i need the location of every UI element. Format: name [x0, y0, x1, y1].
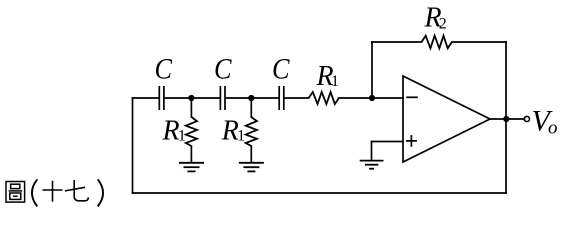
ground under R1 shunt 2: [239, 163, 264, 172]
svg-text:C: C: [155, 53, 173, 86]
svg-text:o: o: [548, 118, 558, 139]
svg-text:1: 1: [178, 128, 186, 145]
wire C1 to node A: [165, 97, 192, 99]
wire op-amp + input: [372, 141, 404, 143]
svg-text:C: C: [214, 53, 232, 86]
capacitor C2 plates: [220, 86, 225, 110]
wire C3 to R1 series: [285, 97, 309, 99]
ground under R1 shunt 1: [179, 163, 204, 172]
wire R2 top right segment: [452, 41, 506, 43]
wire node A down to R1: [190, 98, 192, 117]
caption glyph 七: [65, 180, 88, 201]
node inverting input junction dot: [369, 95, 375, 101]
caption glyph 十: [43, 181, 63, 202]
output terminal open circle: [524, 116, 529, 121]
wire right vertical (R2 top to output node to bottom): [505, 42, 507, 193]
resistor R1 series zigzag: [309, 92, 339, 104]
ground at op-amp + input: [360, 161, 384, 169]
resistor R1 shunt 2 zigzag: [246, 117, 257, 146]
op-amp minus sign: [406, 96, 418, 98]
wire R2 left vertical from inverting node: [371, 42, 373, 98]
svg-text:R: R: [162, 116, 180, 147]
capacitor C3 plates: [279, 86, 284, 110]
node A junction dot: [188, 95, 194, 101]
svg-text:1: 1: [237, 128, 245, 145]
wire node A to C2: [191, 97, 219, 99]
op-amp plus sign: [406, 135, 417, 147]
node output junction dot: [503, 116, 509, 122]
svg-text:2: 2: [439, 15, 447, 32]
wire node B to C3: [251, 97, 278, 99]
wire main line segment to C1: [133, 97, 159, 99]
svg-text:1: 1: [331, 73, 339, 90]
wire R2 top left segment: [372, 41, 422, 43]
caption close parenthesis: [98, 179, 103, 206]
caption glyph 圖: [6, 182, 25, 203]
wire bottom feedback: [133, 192, 507, 194]
resistor R2 zigzag: [422, 36, 452, 49]
wire node B down to R1: [250, 98, 252, 117]
wire R1 series to op-amp inverting input: [339, 97, 403, 99]
svg-text:R: R: [221, 116, 239, 147]
caption open parenthesis: [32, 179, 37, 206]
wire op-amp output to terminal: [490, 118, 524, 120]
wire + input down to ground: [371, 142, 373, 161]
wire R1(2) bottom to ground: [250, 146, 252, 162]
wire R1 bottom to ground: [190, 146, 192, 162]
capacitor C1 plates: [159, 86, 164, 110]
resistor R1 shunt 1 zigzag: [186, 117, 197, 146]
node B junction dot: [248, 95, 254, 101]
wire left vertical feedback: [132, 98, 134, 193]
svg-text:C: C: [272, 53, 290, 86]
wire C2 to node B: [226, 97, 252, 99]
op-amp U1 triangle: [403, 76, 490, 162]
